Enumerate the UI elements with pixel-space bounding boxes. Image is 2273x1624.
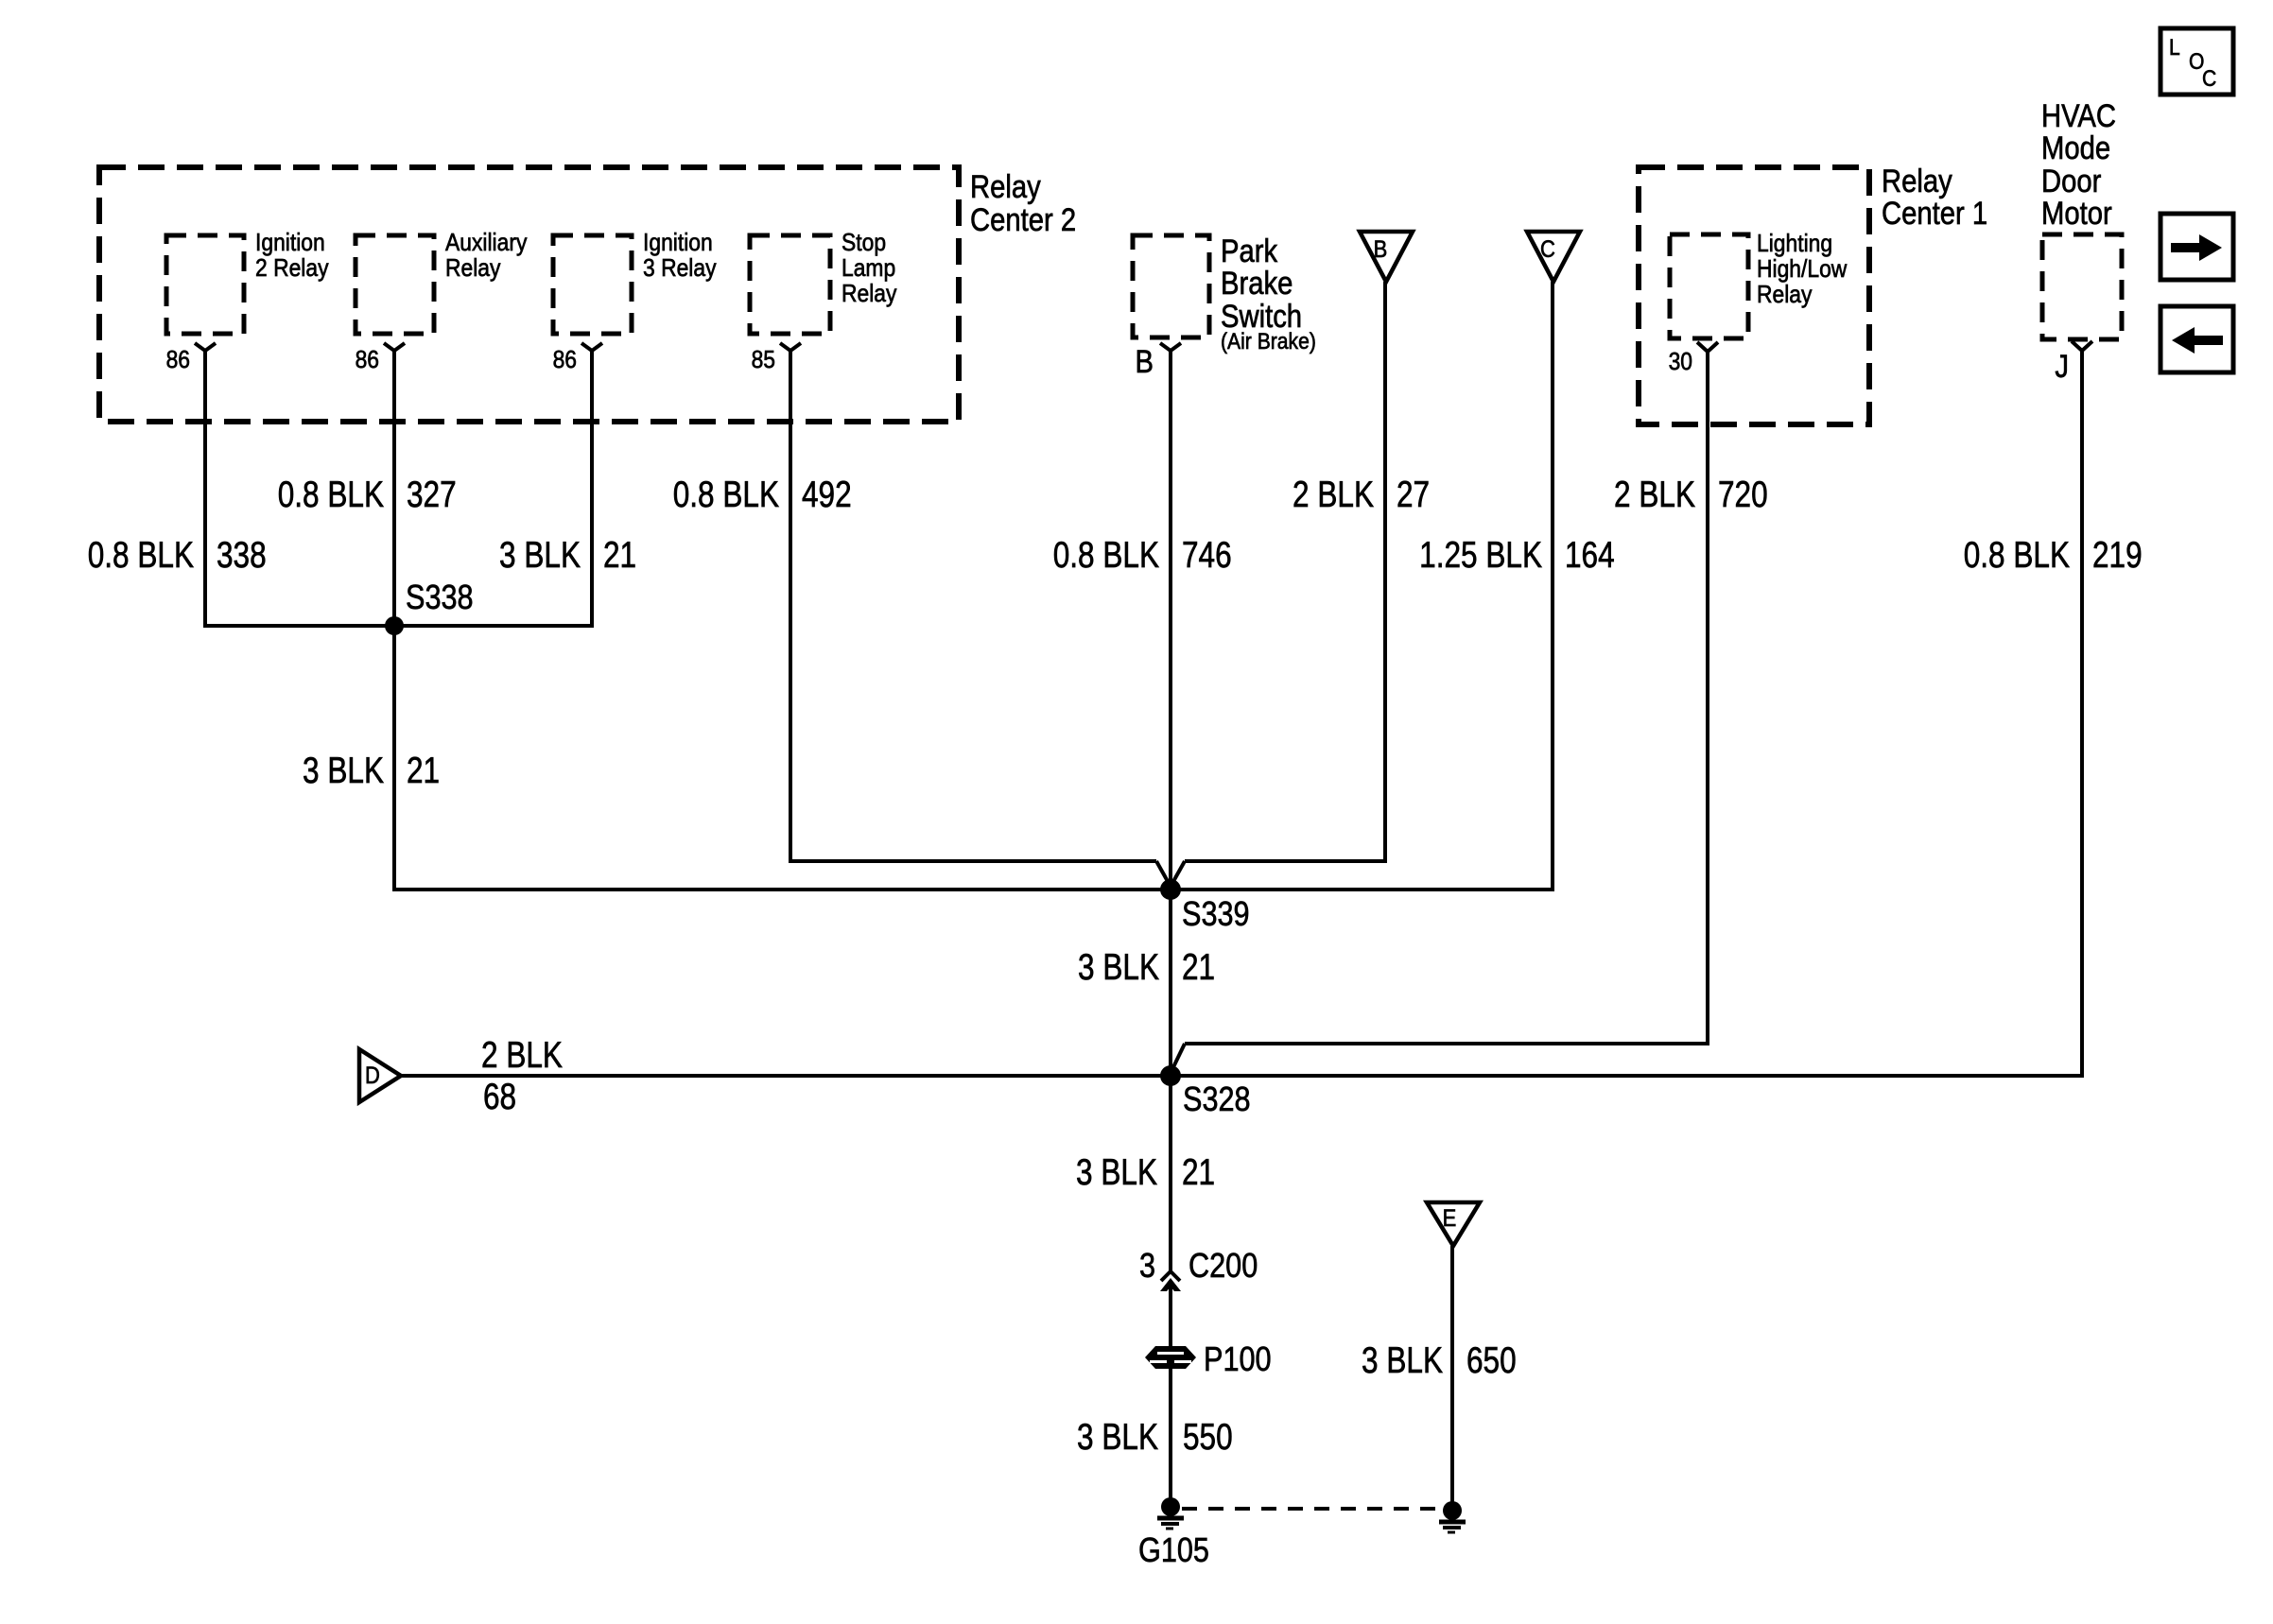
- svg-text:G105: G105: [1138, 1531, 1209, 1570]
- pin 30 terminal of Lighting High/Low Relay: [1697, 342, 1718, 352]
- junction S328: [1160, 1065, 1181, 1086]
- label: Ignition 3 Relay: [643, 230, 717, 283]
- svg-text:Relay: Relay: [842, 281, 897, 308]
- connector box: Relay Center 1: [1639, 167, 1869, 424]
- wire label 3 BLK 21 (ignition 3 drop): [499, 535, 636, 576]
- svg-text:3 BLK: 3 BLK: [1077, 1417, 1158, 1458]
- label: HVAC Mode Door Motor: [2041, 97, 2116, 232]
- wire label 2 BLK 68 (circuit D): [481, 1035, 563, 1117]
- svg-text:HVAC: HVAC: [2041, 97, 2116, 134]
- svg-text:Center 1: Center 1: [1882, 195, 1987, 232]
- svg-text:2 BLK: 2 BLK: [1293, 475, 1374, 515]
- svg-text:2 Relay: 2 Relay: [255, 255, 329, 283]
- pin 86 terminal of Ignition 3 Relay: [581, 343, 602, 351]
- wire: S339 main horizontal (aux trunk to C drop): [392, 888, 1554, 891]
- svg-text:3 BLK: 3 BLK: [499, 535, 581, 576]
- wire: lighting horizontal into S328: [1185, 1042, 1708, 1045]
- wire label 3 BLK 21 (below S338): [303, 751, 440, 791]
- relay: Ignition 3 Relay: [553, 235, 632, 334]
- relay: Ignition 2 Relay: [166, 235, 244, 334]
- triangle connector E: [1427, 1202, 1480, 1246]
- ground symbol at E drop: [1439, 1501, 1466, 1532]
- relay: Stop Lamp Relay: [750, 235, 830, 334]
- pin 85 terminal of Stop Lamp Relay: [780, 343, 801, 351]
- wire label 1.25 BLK 164: [1419, 535, 1614, 576]
- wire: stop lamp horizontal into S339: [790, 859, 1156, 863]
- svg-text:C200: C200: [1189, 1247, 1258, 1286]
- svg-text:Ignition: Ignition: [643, 230, 713, 257]
- wire: S328 main horizontal (D to J): [401, 1074, 2082, 1078]
- junction S338: [385, 616, 404, 635]
- svg-text:C: C: [1540, 236, 1555, 263]
- wire: Stop Lamp Relay pin 85 drop: [789, 351, 792, 863]
- wire label 3 BLK 550: [1077, 1417, 1233, 1458]
- svg-text:Auxiliary: Auxiliary: [445, 230, 528, 257]
- svg-text:High/Low: High/Low: [1757, 256, 1848, 284]
- label: Park Brake Switch (Air Brake): [1221, 233, 1316, 354]
- grommet P100: [1145, 1346, 1196, 1369]
- svg-text:1.25 BLK: 1.25 BLK: [1419, 535, 1542, 576]
- svg-text:550: 550: [1183, 1417, 1233, 1458]
- svg-text:3 BLK: 3 BLK: [1076, 1152, 1157, 1193]
- svg-text:85: 85: [752, 347, 775, 374]
- wire label 3 BLK 21 (S328 to C200): [1076, 1152, 1215, 1193]
- svg-text:Ignition: Ignition: [255, 230, 325, 257]
- wire: dashed ground tie G105 to E ground: [1182, 1507, 1441, 1511]
- svg-text:2 BLK: 2 BLK: [481, 1035, 563, 1076]
- ground G105 (left ground symbol): [1157, 1497, 1184, 1529]
- wire label 3 BLK 21 (S339 to S328): [1078, 947, 1215, 988]
- wire: HVAC pin J drop to S328 line: [2080, 351, 2084, 1078]
- wire label 0.8 BLK 338: [88, 535, 267, 576]
- svg-text:86: 86: [553, 347, 577, 374]
- component: HVAC Mode Door Motor: [2042, 234, 2122, 339]
- svg-text:3 BLK: 3 BLK: [303, 751, 384, 791]
- wire: triangle C drop: [1551, 282, 1554, 891]
- label: Relay Center 1: [1882, 163, 1987, 232]
- svg-text:3 Relay: 3 Relay: [643, 255, 717, 283]
- svg-text:0.8 BLK: 0.8 BLK: [1964, 535, 2071, 576]
- svg-text:Relay: Relay: [970, 168, 1041, 205]
- svg-text:164: 164: [1565, 535, 1615, 576]
- svg-text:Park: Park: [1221, 233, 1277, 269]
- svg-text:Center 2: Center 2: [970, 201, 1076, 238]
- label: Stop Lamp Relay: [842, 230, 897, 308]
- wire: triangle B drop: [1383, 282, 1387, 863]
- legend box: right arrow: [2160, 214, 2233, 280]
- svg-text:Door: Door: [2041, 163, 2102, 199]
- svg-text:L: L: [2169, 35, 2180, 60]
- label: Relay Center 2: [970, 168, 1076, 238]
- wire: S338 horizontal tie: [203, 624, 594, 628]
- svg-text:86: 86: [356, 347, 379, 374]
- label: Auxiliary Relay: [445, 230, 528, 283]
- label: 3 C200: [1139, 1247, 1258, 1286]
- wire: B horizontal into S339: [1185, 859, 1385, 863]
- svg-text:Lamp: Lamp: [842, 255, 895, 283]
- relay: Lighting High/Low Relay: [1670, 234, 1748, 338]
- pin B terminal of Park Brake Switch: [1160, 343, 1181, 351]
- svg-text:0.8 BLK: 0.8 BLK: [673, 475, 780, 515]
- svg-text:21: 21: [1182, 947, 1215, 988]
- legend box: left arrow: [2160, 306, 2233, 372]
- svg-text:30: 30: [1669, 349, 1692, 376]
- svg-text:Stop: Stop: [842, 230, 886, 257]
- wire: P100 to ground G105: [1169, 1367, 1172, 1507]
- svg-text:3: 3: [1139, 1247, 1155, 1286]
- wire: triangle E drop to ground: [1450, 1246, 1454, 1509]
- wire label 0.8 BLK 327: [278, 475, 457, 515]
- svg-text:3 BLK: 3 BLK: [1078, 947, 1159, 988]
- svg-text:Relay: Relay: [1882, 163, 1952, 199]
- svg-text:Brake: Brake: [1221, 265, 1293, 302]
- pin 86 terminal of Ignition 2 Relay: [195, 343, 216, 351]
- pin 86 terminal of Auxiliary Relay: [384, 343, 405, 351]
- label: Ignition 2 Relay: [255, 230, 329, 283]
- pin J terminal of HVAC Mode Door Motor: [2072, 341, 2092, 351]
- svg-text:J: J: [2055, 348, 2069, 385]
- svg-text:219: 219: [2092, 535, 2143, 576]
- wire label 2 BLK 720: [1614, 475, 1768, 515]
- svg-text:P100: P100: [1204, 1340, 1272, 1379]
- svg-text:338: 338: [217, 535, 267, 576]
- connector C200 (in-line, pin 3): [1161, 1271, 1180, 1281]
- svg-text:S338: S338: [406, 579, 474, 617]
- triangle connector C: [1527, 232, 1580, 282]
- svg-text:3 BLK: 3 BLK: [1362, 1340, 1443, 1381]
- wire: C200 to P100: [1169, 1284, 1172, 1348]
- svg-text:21: 21: [603, 535, 636, 576]
- svg-text:Lighting: Lighting: [1757, 231, 1832, 258]
- svg-text:2 BLK: 2 BLK: [1614, 475, 1695, 515]
- svg-text:86: 86: [166, 347, 190, 374]
- svg-text:B: B: [1136, 343, 1154, 380]
- triangle connector B: [1360, 232, 1413, 282]
- svg-text:(Air Brake): (Air Brake): [1221, 329, 1316, 354]
- svg-text:S339: S339: [1182, 895, 1250, 934]
- svg-text:0.8 BLK: 0.8 BLK: [1053, 535, 1160, 576]
- wire label 0.8 BLK 492: [673, 475, 852, 515]
- connector box: Relay Center 2: [99, 167, 959, 422]
- connector box: Park Brake Switch: [1133, 235, 1209, 337]
- svg-text:0.8 BLK: 0.8 BLK: [278, 475, 385, 515]
- svg-text:B: B: [1374, 236, 1388, 263]
- svg-text:492: 492: [802, 475, 852, 515]
- svg-text:Mode: Mode: [2041, 130, 2110, 166]
- svg-text:68: 68: [483, 1077, 516, 1117]
- wire label 2 BLK 27: [1293, 475, 1430, 515]
- svg-text:Relay: Relay: [445, 255, 501, 283]
- LOC legend box: [2160, 28, 2233, 95]
- svg-text:327: 327: [407, 475, 457, 515]
- svg-text:21: 21: [1182, 1152, 1215, 1193]
- relay: Auxiliary Relay: [356, 235, 434, 334]
- wire: Ignition 2 Relay pin 86 down to S338: [203, 351, 207, 628]
- svg-text:650: 650: [1466, 1340, 1517, 1381]
- svg-text:Motor: Motor: [2041, 195, 2112, 232]
- wire: Lighting relay pin 30 drop: [1706, 352, 1709, 1045]
- svg-text:0.8 BLK: 0.8 BLK: [88, 535, 195, 576]
- wire: Ignition 3 Relay pin 86 down to S338: [590, 351, 594, 628]
- junction S339: [1160, 879, 1181, 900]
- svg-text:S328: S328: [1183, 1080, 1251, 1119]
- wire label 3 BLK 650: [1362, 1340, 1517, 1381]
- svg-text:E: E: [1443, 1205, 1457, 1232]
- svg-text:D: D: [365, 1063, 380, 1089]
- svg-text:27: 27: [1397, 475, 1430, 515]
- svg-text:C: C: [2202, 66, 2216, 92]
- triangle connector D: [359, 1049, 401, 1102]
- wire: Auxiliary Relay pin 86 down through S338 to S339 level: [392, 351, 396, 891]
- svg-text:21: 21: [407, 751, 440, 791]
- wire label 0.8 BLK 746: [1053, 535, 1232, 576]
- svg-text:746: 746: [1182, 535, 1232, 576]
- svg-text:Relay: Relay: [1757, 282, 1813, 309]
- wire label 0.8 BLK 219: [1964, 535, 2143, 576]
- label: Lighting High/Low Relay: [1757, 231, 1848, 309]
- svg-text:720: 720: [1718, 475, 1768, 515]
- wire: park brake trunk (pin B down through S339/S328 to C200): [1169, 351, 1172, 1270]
